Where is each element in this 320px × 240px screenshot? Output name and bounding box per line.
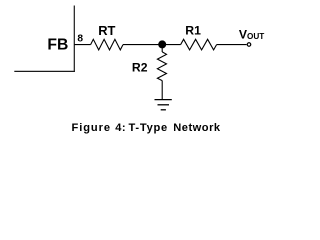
svg-text:4:: 4: <box>115 122 126 134</box>
svg-text:Figure: Figure <box>72 122 111 134</box>
svg-text:R1: R1 <box>185 24 201 38</box>
svg-text:Network: Network <box>173 122 221 134</box>
svg-text:8: 8 <box>77 34 83 45</box>
svg-text:R2: R2 <box>132 60 148 74</box>
svg-text:T-Type: T-Type <box>129 122 169 134</box>
svg-text:RT: RT <box>98 23 115 38</box>
svg-text:OUT: OUT <box>247 32 264 41</box>
svg-text:FB: FB <box>47 36 68 53</box>
